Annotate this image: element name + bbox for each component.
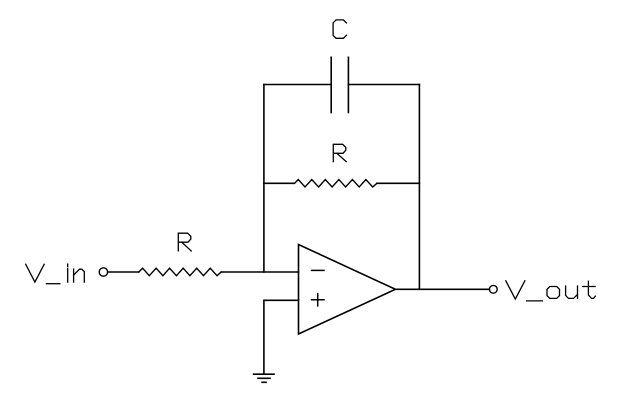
node V_in terminal bbox=[99, 268, 107, 276]
wire: V_in to input resistor bbox=[108, 271, 139, 273]
wire: feedback left vertical bbox=[263, 85, 265, 273]
op-amp U1 bbox=[299, 245, 396, 335]
wire: top feedback right segment bbox=[348, 84, 419, 86]
wire: feedback resistor right lead bbox=[377, 182, 420, 184]
wire: feedback resistor left lead bbox=[264, 182, 295, 184]
ground bbox=[254, 374, 274, 382]
wire: input resistor to inverting input bbox=[221, 271, 298, 273]
label R input bbox=[178, 233, 191, 251]
wire: non-inverting input elbow bbox=[264, 300, 299, 374]
label V_out bbox=[506, 281, 596, 301]
node V_out terminal bbox=[489, 285, 497, 293]
op-amp U1 minus pin mark bbox=[312, 269, 325, 271]
wire: output bbox=[395, 288, 489, 290]
label V_in bbox=[26, 264, 85, 284]
wire: feedback right vertical bbox=[418, 85, 420, 290]
capacitor C bbox=[331, 57, 348, 112]
label C bbox=[333, 20, 346, 38]
label R feedback bbox=[333, 144, 346, 161]
resistor R input zigzag bbox=[139, 268, 221, 276]
wire: top feedback left segment bbox=[264, 84, 331, 86]
op-amp U1 plus pin mark bbox=[312, 294, 325, 306]
resistor R feedback zigzag bbox=[295, 180, 377, 188]
